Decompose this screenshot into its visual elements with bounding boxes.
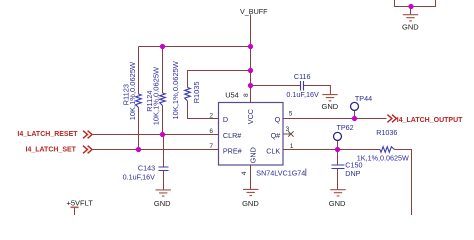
svg-text:7: 7 xyxy=(209,143,213,150)
svg-text:U54: U54 xyxy=(225,90,239,99)
svg-text:1: 1 xyxy=(290,143,294,150)
svg-text:Q: Q xyxy=(275,115,281,124)
svg-text:GND: GND xyxy=(322,102,339,111)
svg-text:C143: C143 xyxy=(138,164,155,173)
svg-text:PRE#: PRE# xyxy=(223,147,242,156)
svg-text:C116: C116 xyxy=(294,72,311,81)
svg-text:D: D xyxy=(223,115,228,124)
svg-text:10K,1%,0.0625W: 10K,1%,0.0625W xyxy=(171,60,180,119)
svg-text:3: 3 xyxy=(286,126,290,133)
svg-text:VCC: VCC xyxy=(246,109,255,124)
svg-text:TP62: TP62 xyxy=(337,123,354,132)
svg-text:1K,1%,0.0625W: 1K,1%,0.0625W xyxy=(357,154,409,163)
svg-text:CLR#: CLR# xyxy=(223,131,241,140)
svg-text:GND: GND xyxy=(329,199,346,208)
svg-text:GND: GND xyxy=(248,147,257,163)
svg-text:10K,1%,0.0625W: 10K,1%,0.0625W xyxy=(152,66,161,125)
svg-text:+5VFLT: +5VFLT xyxy=(67,198,94,207)
svg-text:GND: GND xyxy=(242,199,259,208)
svg-text:I4_LATCH_SET: I4_LATCH_SET xyxy=(26,146,77,153)
svg-text:10K,1%,0.0625W: 10K,1%,0.0625W xyxy=(128,61,137,120)
svg-text:5: 5 xyxy=(289,110,293,117)
svg-text:TP44: TP44 xyxy=(355,94,372,103)
svg-text:6: 6 xyxy=(209,128,213,135)
svg-text:8: 8 xyxy=(243,93,250,97)
svg-text:R1036: R1036 xyxy=(376,128,397,137)
svg-text:2: 2 xyxy=(209,113,213,120)
svg-text:GND: GND xyxy=(402,23,419,32)
svg-text:Q#: Q# xyxy=(271,131,281,140)
svg-text:V_BUFF: V_BUFF xyxy=(240,7,268,16)
svg-text:I4_LATCH_RESET: I4_LATCH_RESET xyxy=(17,131,78,138)
svg-text:CLK: CLK xyxy=(266,147,280,156)
svg-text:I4_LATCH_OUTPUT: I4_LATCH_OUTPUT xyxy=(397,117,463,124)
svg-text:0.1uF,16V: 0.1uF,16V xyxy=(123,173,156,182)
svg-text:R1035: R1035 xyxy=(192,82,201,104)
svg-text:SN74LVC1G74: SN74LVC1G74 xyxy=(256,168,305,177)
svg-text:0.1uF,16V: 0.1uF,16V xyxy=(286,90,319,99)
svg-text:DNP: DNP xyxy=(345,169,360,178)
svg-text:GND: GND xyxy=(154,199,171,208)
svg-text:4: 4 xyxy=(241,171,248,175)
